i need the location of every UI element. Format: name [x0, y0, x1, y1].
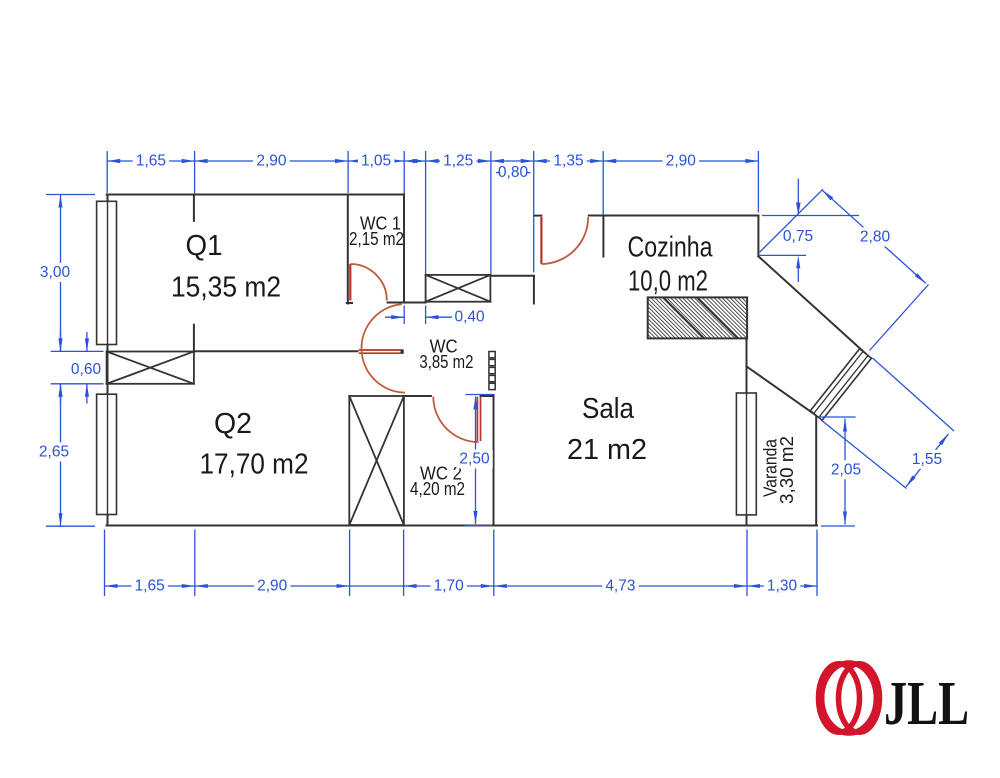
svg-text:1,35: 1,35	[553, 153, 583, 170]
dimension 0,80 top (text dropped)	[491, 160, 534, 162]
svg-text:17,70 m2: 17,70 m2	[200, 449, 309, 481]
window Q1 (left wall)	[97, 201, 117, 344]
svg-text:3,30 m2: 3,30 m2	[776, 436, 797, 504]
dimension 1,35 top	[534, 160, 604, 162]
svg-text:4,73: 4,73	[605, 578, 635, 595]
svg-text:Q2: Q2	[214, 408, 252, 440]
door WC leaf (double line)	[359, 349, 404, 351]
svg-text:3,85 m2: 3,85 m2	[419, 351, 473, 372]
wall stub entry/Cozinha (x=603)	[602, 216, 604, 257]
svg-text:2,05: 2,05	[831, 461, 861, 478]
wall left outer	[107, 195, 109, 526]
dimension 4,73 bottom	[494, 585, 747, 587]
svg-text:2,80: 2,80	[860, 229, 891, 246]
svg-text:2,65: 2,65	[39, 444, 69, 461]
svg-text:3,00: 3,00	[40, 264, 71, 281]
svg-text:2,90: 2,90	[666, 153, 697, 170]
wall top-left (Q1/WC1 outer wall)	[107, 194, 404, 196]
door WC2 arc	[433, 397, 479, 443]
wall WC2/Sala divider right	[493, 395, 495, 526]
wall NE corner vertical (0,75)	[757, 216, 759, 257]
kitchen counter (hatched)	[648, 297, 747, 338]
dimension 2,90 bottom	[195, 585, 350, 587]
door WC arc	[362, 304, 405, 392]
svg-text:Q1: Q1	[186, 230, 223, 262]
svg-text:0,40: 0,40	[455, 309, 486, 326]
svg-text:21 m2: 21 m2	[567, 434, 647, 466]
svg-text:1,55: 1,55	[912, 451, 942, 468]
dimension 1,55 (diagonal window)	[873, 358, 955, 431]
svg-text:2,90: 2,90	[256, 153, 287, 170]
svg-text:2,15 m2: 2,15 m2	[349, 228, 404, 249]
entrance door jamb	[534, 215, 541, 217]
dimension 2,50 (WC2 height)	[465, 394, 493, 396]
wall WC1 bottom-left stub	[347, 302, 352, 304]
wall Sala/Varanda divider	[746, 338, 748, 525]
svg-text:1,65: 1,65	[136, 153, 166, 170]
window Sala/Varanda	[736, 393, 756, 515]
svg-text:Cozinha: Cozinha	[628, 232, 714, 264]
svg-text:0,60: 0,60	[71, 361, 102, 378]
dimension 1,30 bottom	[747, 585, 817, 587]
window Q2 (left wall)	[97, 394, 117, 514]
svg-text:10,0 m2: 10,0 m2	[628, 266, 708, 298]
wall corridor end (x=534)	[533, 276, 535, 304]
vent duct squares	[489, 352, 495, 390]
svg-text:4,20 m2: 4,20 m2	[410, 478, 465, 499]
wall Cozinha diagonal (2,80)	[758, 256, 865, 353]
svg-text:2,90: 2,90	[257, 578, 288, 595]
wall Varanda right	[815, 415, 817, 526]
door WC2 leaf (double line)	[476, 397, 478, 441]
wall Q1 doorway stub upper (x=194)	[193, 196, 195, 221]
svg-text:15,35 m2: 15,35 m2	[171, 272, 281, 304]
door WC1 arc	[350, 264, 387, 301]
dimension 1,25 top	[426, 160, 491, 162]
shaft X-box WC2	[349, 396, 404, 525]
door entrance arc	[541, 217, 588, 264]
window tilted (1,55 wall)	[810, 349, 871, 420]
extension lines bottom row	[104, 530, 106, 597]
svg-text:0,80: 0,80	[498, 164, 529, 181]
wall WC1 bottom	[388, 302, 426, 304]
corridor window X-box (0,40 shaft)	[426, 275, 491, 302]
svg-text:1,65: 1,65	[135, 578, 165, 595]
svg-text:2,50: 2,50	[459, 451, 490, 468]
wall WC1 left	[347, 195, 349, 304]
dimension 0,40 (corridor shaft)	[403, 306, 405, 325]
wall WC1 right	[403, 195, 405, 303]
dimension 3,00 left	[60, 195, 62, 352]
dimension 2,65 left	[60, 384, 62, 526]
svg-text:1,30: 1,30	[767, 578, 798, 595]
wall Q1 doorway stub lower (x=194)	[193, 325, 195, 352]
dimension 0,60 left (arrows outside)	[60, 332, 62, 351]
door WC1 leaf	[349, 264, 351, 301]
dimension 2,90 top-left	[195, 160, 349, 162]
closet X-box between Q1 and Q2	[107, 352, 194, 384]
wall Varanda diagonal	[747, 366, 817, 415]
extension lines top row	[106, 151, 108, 193]
dimension 2,80 (diagonal)	[760, 189, 823, 252]
wall Q1/Q2 divider	[194, 350, 358, 352]
svg-text:1,70: 1,70	[434, 578, 465, 595]
dimension 1,65 bottom	[105, 585, 195, 587]
svg-text:Sala: Sala	[582, 393, 635, 425]
wall WC2 top left piece	[404, 395, 431, 397]
svg-text:1,05: 1,05	[361, 153, 391, 170]
dimension 2,90 top-right	[603, 160, 758, 162]
left dim ticks	[46, 194, 95, 196]
dimension 0,75 (NE corner)	[762, 215, 859, 217]
wall WC2 top right piece	[481, 395, 494, 397]
dimension 1,70 bottom	[404, 585, 494, 587]
svg-text:0,75: 0,75	[783, 228, 813, 245]
door entrance leaf	[540, 217, 542, 264]
wall corridor top (right of shaft)	[490, 275, 534, 277]
svg-text:1,25: 1,25	[443, 153, 473, 170]
wall top-right (entry to Cozinha corner)	[589, 215, 759, 217]
svg-text:JLL: JLL	[884, 670, 969, 738]
dimension gap (0,40 measured below)	[404, 160, 425, 162]
dimension 1,05 top	[348, 160, 404, 162]
dimension 2,05 (Varanda height)	[819, 416, 856, 418]
wall bottom outer	[107, 525, 818, 527]
JLL logo emblem (red globe)	[819, 663, 880, 733]
dimension 1,65 top	[107, 160, 194, 162]
